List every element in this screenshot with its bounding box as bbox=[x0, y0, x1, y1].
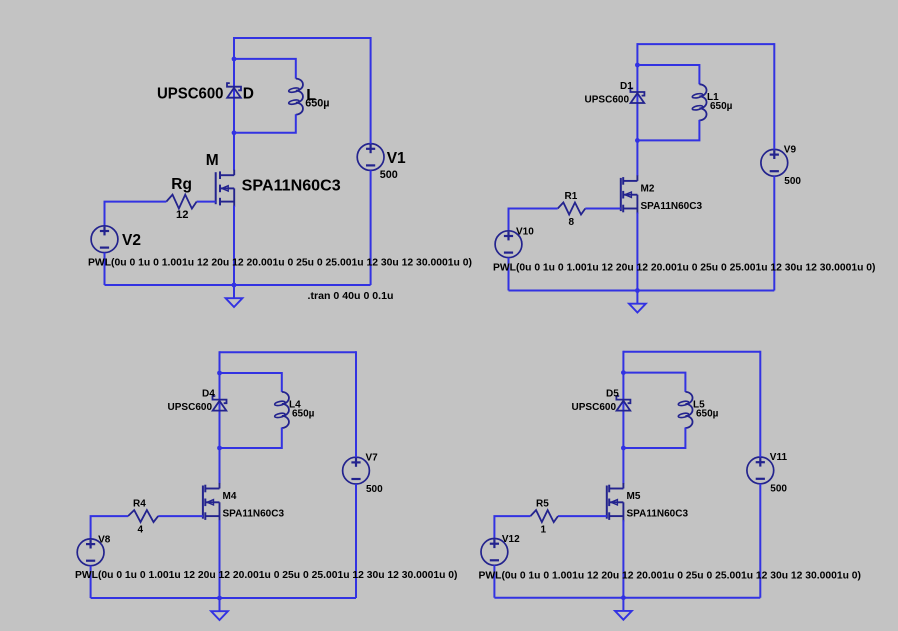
ground C1 bbox=[226, 285, 243, 307]
node: C3 diode-cathode / inductor-top junction bbox=[217, 371, 222, 376]
svg-text:UPSC600: UPSC600 bbox=[168, 402, 213, 413]
svg-text:500: 500 bbox=[366, 484, 383, 495]
svg-text:D5: D5 bbox=[606, 389, 619, 400]
svg-text:V7: V7 bbox=[366, 452, 379, 463]
node: C3 ground junction on bottom rail bbox=[217, 596, 222, 601]
transistor M SPA11N60C3 bbox=[216, 170, 235, 207]
diode D5 UPSC600 bbox=[616, 396, 630, 411]
wire: C1 gate wire from resistor to gate bbox=[197, 201, 216, 203]
resistor Rg bbox=[166, 195, 196, 209]
resistor R4 bbox=[128, 510, 158, 522]
diode D1 UPSC600 bbox=[630, 88, 644, 103]
transistor M2 SPA11N60C3 bbox=[621, 175, 638, 214]
wire: C3 left branch upper bbox=[219, 351, 221, 483]
svg-text:V10: V10 bbox=[516, 226, 534, 237]
node: C2 ground junction on bottom rail bbox=[635, 288, 640, 293]
svg-text:500: 500 bbox=[784, 176, 801, 187]
svg-text:M: M bbox=[206, 152, 219, 169]
wire: C2 left branch upper bbox=[636, 43, 638, 176]
svg-text:M4: M4 bbox=[223, 491, 237, 502]
wire: C3 top rail bbox=[220, 351, 357, 353]
wire: C3 right branch top bbox=[355, 351, 357, 457]
voltage source V8 (PWL) bbox=[77, 539, 104, 566]
wire: C3 source down to bottom rail bbox=[219, 520, 221, 598]
svg-text:D1: D1 bbox=[620, 81, 633, 92]
svg-text:SPA11N60C3: SPA11N60C3 bbox=[223, 509, 285, 520]
svg-text:D: D bbox=[243, 86, 254, 103]
wire: C4 gate wire bbox=[558, 515, 607, 517]
svg-text:1: 1 bbox=[541, 525, 547, 536]
svg-text:4: 4 bbox=[138, 525, 144, 536]
wire: C3 gate wire bbox=[158, 515, 203, 517]
diode D UPSC600 bbox=[227, 83, 241, 98]
node: C4 ground junction on bottom rail bbox=[621, 595, 626, 600]
ground C2 bbox=[629, 291, 646, 313]
inductor L5 650u bbox=[678, 392, 693, 428]
svg-text:V9: V9 bbox=[784, 145, 797, 156]
svg-text:PWL(0u 0 1u 0 1.001u 12 20u 12: PWL(0u 0 1u 0 1.001u 12 20u 12 20.001u 0… bbox=[493, 263, 876, 274]
svg-text:650µ: 650µ bbox=[292, 409, 315, 420]
wire: C4 PWL source bottom to rail bbox=[493, 565, 495, 598]
svg-text:.tran 0 40u 0 0.1u: .tran 0 40u 0 0.1u bbox=[308, 290, 394, 302]
wire: C3 PWL source bottom to rail bbox=[90, 566, 92, 598]
wire: C1 V1 bottom to rail bbox=[370, 170, 372, 285]
resistor R1 bbox=[558, 203, 586, 215]
wire: C4 top rail bbox=[623, 351, 760, 353]
wire: C1 source down to bottom rail bbox=[233, 206, 235, 285]
voltage source V11 500 bbox=[747, 457, 774, 484]
wire: C1 inductor bottom to inner bottom wire bbox=[234, 114, 296, 133]
svg-text:12: 12 bbox=[176, 209, 188, 221]
svg-text:PWL(0u 0 1u 0 1.001u 12 20u 12: PWL(0u 0 1u 0 1.001u 12 20u 12 20.001u 0… bbox=[479, 571, 862, 582]
inductor L1 650u bbox=[692, 84, 707, 120]
ground C4 bbox=[615, 598, 632, 620]
wire: C4 right branch bottom bbox=[759, 484, 761, 598]
svg-text:M2: M2 bbox=[641, 184, 655, 195]
svg-text:UPSC600: UPSC600 bbox=[572, 402, 617, 413]
node: C1 diode-anode / inductor-bottom junction bbox=[232, 130, 237, 135]
node: C3 diode-anode / inductor-bottom junction bbox=[217, 446, 222, 451]
wire: C3 inductor bottom wire bbox=[220, 428, 282, 449]
wire: C2 inner top wire to inductor bbox=[637, 65, 699, 84]
voltage source V2 (PWL) bbox=[91, 226, 118, 253]
svg-text:SPA11N60C3: SPA11N60C3 bbox=[641, 201, 703, 212]
wire: C2 PWL source bottom to rail bbox=[508, 258, 510, 291]
wire: C4 left branch upper bbox=[622, 351, 624, 484]
svg-text:PWL(0u 0 1u 0 1.001u 12 20u 12: PWL(0u 0 1u 0 1.001u 12 20u 12 20.001u 0… bbox=[75, 570, 458, 581]
transistor M4 SPA11N60C3 bbox=[203, 483, 220, 522]
node: C4 diode-anode / inductor-bottom junction bbox=[621, 446, 626, 451]
wire: C1 inner top wire to inductor bbox=[234, 59, 296, 79]
wire: C1 left wire V2 to resistor bbox=[105, 202, 167, 226]
wire: C2 source down to bottom rail bbox=[636, 213, 638, 291]
svg-text:500: 500 bbox=[770, 484, 787, 495]
svg-text:650µ: 650µ bbox=[305, 97, 329, 109]
inductor L4 650u bbox=[274, 392, 289, 428]
voltage source V1 500 bbox=[357, 144, 384, 171]
svg-text:UPSC600: UPSC600 bbox=[585, 95, 630, 106]
svg-text:M5: M5 bbox=[627, 491, 641, 502]
svg-text:V1: V1 bbox=[387, 150, 406, 167]
voltage source V9 500 bbox=[761, 149, 788, 176]
voltage source V10 (PWL) bbox=[495, 231, 522, 258]
wire: C4 inductor bottom wire bbox=[623, 428, 685, 449]
wire: C2 bottom rail bbox=[509, 290, 775, 292]
voltage source V12 (PWL) bbox=[481, 539, 508, 566]
wire: C3 left wire to resistor bbox=[91, 516, 128, 539]
svg-text:SPA11N60C3: SPA11N60C3 bbox=[242, 178, 341, 195]
svg-text:650µ: 650µ bbox=[710, 101, 733, 112]
svg-text:D4: D4 bbox=[202, 389, 215, 400]
ground C3 bbox=[211, 598, 228, 620]
wire: C4 source down to bottom rail bbox=[622, 520, 624, 598]
svg-text:SPA11N60C3: SPA11N60C3 bbox=[627, 509, 689, 520]
wire: C4 left wire to resistor bbox=[494, 516, 530, 538]
svg-text:PWL(0u 0 1u 0 1.001u 12 20u 12: PWL(0u 0 1u 0 1.001u 12 20u 12 20.001u 0… bbox=[88, 258, 472, 269]
svg-text:R5: R5 bbox=[536, 499, 549, 510]
wire: C2 top rail bbox=[637, 43, 774, 45]
svg-text:R4: R4 bbox=[133, 499, 146, 510]
resistor R5 bbox=[530, 510, 558, 522]
wire: C3 bottom rail bbox=[91, 597, 356, 599]
svg-text:UPSC600: UPSC600 bbox=[157, 86, 224, 103]
inductor L 650u bbox=[288, 79, 303, 115]
svg-text:V12: V12 bbox=[502, 534, 520, 545]
node: C4 diode-cathode / inductor-top junction bbox=[621, 370, 626, 375]
svg-text:V11: V11 bbox=[770, 452, 788, 463]
svg-text:500: 500 bbox=[380, 169, 398, 181]
wire: C3 right branch bottom bbox=[355, 484, 357, 598]
svg-text:V2: V2 bbox=[122, 232, 141, 249]
wire: C4 right branch top bbox=[759, 351, 761, 457]
wire: C1 V2 bottom to rail bbox=[104, 253, 106, 286]
wire: C2 right branch top bbox=[773, 43, 775, 149]
wire: C1 V1 branch top bbox=[370, 37, 372, 144]
node: C1 ground junction on bottom rail bbox=[232, 283, 237, 288]
svg-text:650µ: 650µ bbox=[696, 409, 719, 420]
transistor M5 SPA11N60C3 bbox=[607, 483, 624, 522]
node: C2 diode-cathode / inductor-top junction bbox=[635, 63, 640, 68]
wire: C4 bottom rail bbox=[494, 597, 760, 599]
wire: C1 left branch upper (drain/diode branch) bbox=[233, 37, 235, 170]
node: C2 diode-anode / inductor-bottom junction bbox=[635, 138, 640, 143]
wire: C3 inner top wire to inductor bbox=[220, 373, 282, 392]
wire: C2 gate wire bbox=[585, 208, 621, 210]
diode D4 UPSC600 bbox=[213, 396, 227, 411]
wire: C4 inner top wire to inductor bbox=[623, 373, 685, 392]
svg-text:R1: R1 bbox=[565, 191, 578, 202]
node: C1 diode-cathode / inductor-top junction bbox=[232, 57, 237, 62]
svg-text:8: 8 bbox=[569, 217, 575, 228]
wire: C1 bottom rail bbox=[105, 284, 371, 286]
svg-text:Rg: Rg bbox=[171, 176, 192, 193]
wire: C2 left wire to resistor bbox=[509, 209, 558, 231]
wire: C2 right branch bottom bbox=[773, 176, 775, 290]
wire: C2 inductor bottom wire bbox=[637, 120, 699, 140]
svg-text:V8: V8 bbox=[98, 534, 111, 545]
voltage source V7 500 bbox=[343, 457, 370, 484]
wire: C1 top rail bbox=[234, 37, 371, 39]
